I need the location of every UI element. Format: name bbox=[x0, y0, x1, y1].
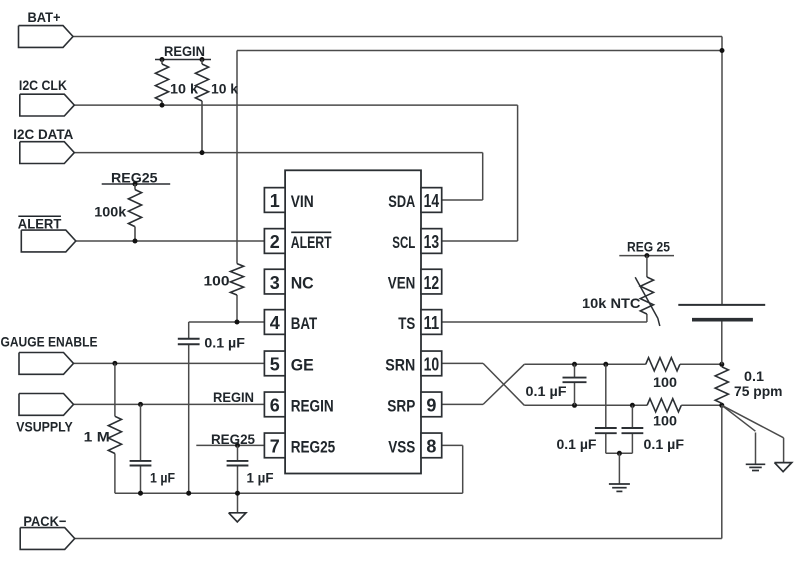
svg-text:10k NTC: 10k NTC bbox=[582, 295, 641, 311]
resistor 10k pull-up (SDA) bbox=[195, 60, 208, 153]
resistor 0.1 shunt 75ppm bbox=[715, 367, 728, 404]
svg-text:VIN: VIN bbox=[291, 192, 314, 211]
wire signal ground stem bbox=[755, 433, 757, 465]
wire SRP pin 9 stub bbox=[442, 403, 483, 405]
svg-text:0.1 µF: 0.1 µF bbox=[644, 436, 685, 452]
svg-text:4: 4 bbox=[270, 313, 280, 333]
svg-text:GAUGE ENABLE: GAUGE ENABLE bbox=[1, 334, 98, 350]
svg-text:2: 2 bbox=[270, 232, 280, 252]
ground chassis (shunt) bbox=[774, 463, 791, 472]
svg-text:8: 8 bbox=[426, 437, 436, 457]
svg-text:14: 14 bbox=[424, 191, 440, 211]
svg-text:BAT+: BAT+ bbox=[28, 9, 61, 25]
resistor 100k pull-up (ALERT) bbox=[128, 184, 141, 241]
svg-text:5: 5 bbox=[270, 355, 280, 375]
label 10k NTC bbox=[582, 295, 641, 311]
wire PACK- horizontal bbox=[75, 538, 722, 540]
pin 1 box/number bbox=[264, 188, 285, 213]
label BAT+ bbox=[28, 9, 61, 25]
svg-text:I2C DATA: I2C DATA bbox=[13, 126, 73, 142]
thermistor 10k NTC bbox=[635, 277, 660, 326]
wire 0.1uF BAT cap lower lead bbox=[188, 344, 190, 493]
pin 13 box/number bbox=[421, 229, 442, 254]
junction shunt bottom (PACK-) bbox=[719, 403, 724, 408]
wire SDA into pin 14 bbox=[442, 199, 483, 201]
pin 14 box/number bbox=[421, 188, 442, 213]
label 10 k (left) bbox=[170, 81, 198, 97]
junction 10k/SDA bbox=[200, 150, 205, 155]
wire 0.1uF right upper lead bbox=[631, 405, 633, 428]
connector GAUGE ENABLE bbox=[19, 353, 74, 375]
svg-text:I2C CLK: I2C CLK bbox=[19, 77, 67, 93]
label VSUPPLY bbox=[16, 419, 73, 435]
svg-text:100k: 100k bbox=[94, 203, 126, 219]
wire BAT+ tap to 100-ohm filter bbox=[237, 50, 722, 52]
svg-text:7: 7 bbox=[270, 437, 280, 457]
connector PACK- bbox=[20, 528, 74, 550]
svg-text:100: 100 bbox=[653, 374, 677, 390]
wire 1uF (REG25) upper lead bbox=[237, 445, 239, 461]
svg-text:SRP: SRP bbox=[387, 396, 415, 415]
junction REGIN rail right bbox=[200, 57, 205, 62]
svg-text:3: 3 bbox=[270, 273, 280, 293]
junction upper row / 0.1uF left bbox=[603, 362, 608, 367]
junction REGIN rail left bbox=[160, 57, 165, 62]
label 100k bbox=[94, 203, 126, 219]
pin 8 box/number bbox=[421, 433, 442, 458]
ground signal (sense caps) bbox=[609, 484, 630, 491]
pin 11 label TS bbox=[398, 314, 415, 333]
svg-text:11: 11 bbox=[424, 313, 440, 333]
wire VSS pin 8 stub bbox=[442, 444, 462, 446]
svg-text:1 µF: 1 µF bbox=[150, 470, 175, 486]
junction BAT pin node bbox=[235, 320, 240, 325]
wire 0.1uF BAT cap upper lead bbox=[188, 322, 190, 339]
svg-text:REG 25: REG 25 bbox=[627, 238, 670, 254]
svg-text:REG25: REG25 bbox=[211, 431, 255, 447]
wire SRP sense lower row bbox=[524, 404, 647, 406]
junction lower row / 0.1uF right bbox=[630, 403, 635, 408]
wire NTC lower lead bbox=[646, 314, 648, 322]
label ALERT-bar bbox=[18, 216, 62, 232]
wire ALERT to pin 2 bbox=[76, 240, 265, 242]
junction GE / 1M tap bbox=[112, 361, 117, 366]
wire crossover SRP to upper bbox=[483, 364, 524, 404]
label 1 M bbox=[84, 429, 110, 445]
wire I2C DATA drop to SDA bbox=[482, 153, 484, 200]
wire shunt to signal ground diagonal bbox=[722, 405, 756, 431]
pin 12 label VEN bbox=[388, 274, 416, 293]
wire VSUPPLY to pin 6 (REGIN) bbox=[74, 403, 265, 405]
svg-text:VEN: VEN bbox=[388, 274, 416, 293]
wire 100-ohm filter vertical (upper) bbox=[236, 51, 238, 264]
wire SRP row to shunt bbox=[681, 404, 722, 406]
wire cap ground stem bbox=[618, 453, 620, 484]
pin 9 box/number bbox=[421, 392, 442, 417]
svg-text:1 µF: 1 µF bbox=[247, 470, 274, 486]
svg-text:10: 10 bbox=[424, 355, 440, 375]
junction REG25 rail / NTC bbox=[644, 253, 649, 258]
battery cell positive plate bbox=[678, 304, 765, 306]
wire shunt to chassis ground diagonal bbox=[722, 405, 784, 438]
label GAUGE ENABLE bbox=[1, 334, 98, 350]
junction cap ground tie bbox=[617, 451, 622, 456]
node REGIN rail (pull-ups) bbox=[155, 59, 211, 61]
node REG25 rail (100k) bbox=[102, 183, 171, 185]
label I2C CLK bbox=[19, 77, 67, 93]
junction REGIN / 1uF tap bbox=[138, 402, 143, 407]
connector I2C DATA bbox=[20, 142, 75, 164]
svg-text:100: 100 bbox=[204, 272, 230, 288]
svg-text:10 k: 10 k bbox=[170, 81, 198, 97]
svg-text:REGIN: REGIN bbox=[291, 396, 334, 415]
svg-text:REGIN: REGIN bbox=[213, 389, 254, 405]
wire SRN pin 10 stub bbox=[442, 362, 483, 364]
svg-text:0.1: 0.1 bbox=[744, 368, 764, 384]
junction REG25 rail / 100k bbox=[133, 182, 138, 187]
label REGIN net at pin 6 bbox=[213, 389, 254, 405]
capacitor 0.1uF (SRP-gnd) bbox=[622, 428, 644, 433]
pin 4 label BAT bbox=[291, 314, 318, 333]
wire BAT+ drop to battery positive bbox=[721, 37, 723, 305]
capacitor 1uF (REG25) bbox=[227, 461, 249, 466]
svg-text:REGIN: REGIN bbox=[164, 43, 205, 59]
svg-text:ALERT: ALERT bbox=[18, 216, 62, 232]
pin 2 label ALERT bbox=[291, 232, 332, 252]
wire BAT+ rail (top) bbox=[73, 36, 722, 38]
junction BAT+ tap bbox=[720, 48, 725, 53]
label 100 (SRP) bbox=[653, 412, 677, 428]
pin 10 label SRN bbox=[385, 355, 415, 374]
op-amp U1 body (fuel gauge IC) bbox=[285, 170, 421, 473]
svg-text:75 ppm: 75 ppm bbox=[734, 383, 783, 399]
label REG25 rail bottom bbox=[211, 431, 255, 447]
wire 0.1uF left lower lead bbox=[605, 433, 607, 453]
wire 0.1uF series lower lead bbox=[574, 382, 576, 405]
resistor 100 (BAT filter) bbox=[230, 264, 243, 295]
wire GAUGE ENABLE to pin 5 bbox=[74, 362, 265, 364]
wire 1uF (REGIN) upper lead bbox=[140, 404, 142, 461]
wire SRN row to shunt bbox=[680, 363, 722, 365]
wire SRN sense upper row bbox=[524, 363, 645, 365]
junction REG25 rail / 1uF bbox=[235, 443, 240, 448]
svg-text:ALERT: ALERT bbox=[291, 233, 332, 252]
svg-text:GE: GE bbox=[291, 355, 314, 374]
svg-text:VSUPPLY: VSUPPLY bbox=[16, 419, 73, 435]
wire 1uF (REGIN) lower lead bbox=[140, 465, 142, 493]
svg-text:6: 6 bbox=[270, 396, 280, 416]
pin 1 label VIN bbox=[291, 192, 314, 211]
label 0.1uF (series) bbox=[526, 383, 567, 399]
wire battery minus to shunt bbox=[721, 320, 723, 364]
battery cell negative plate bbox=[692, 318, 753, 322]
wire 1uF (REG25) lower lead bbox=[237, 465, 239, 512]
wire I2C CLK drop to SCL bbox=[517, 105, 519, 241]
node REG25 rail (thermistor) bbox=[619, 255, 674, 257]
wire SCL into pin 13 bbox=[442, 240, 517, 242]
label 100 (BAT filter) bbox=[204, 272, 230, 288]
svg-text:0.1 µF: 0.1 µF bbox=[526, 383, 567, 399]
connector ALERT-bar bbox=[21, 230, 76, 252]
resistor 1M (VSUPPLY) bbox=[108, 416, 121, 453]
svg-text:100: 100 bbox=[653, 412, 677, 428]
pin 8 label VSS bbox=[388, 437, 415, 456]
label 1uF (REGIN) bbox=[150, 470, 175, 486]
connector VSUPPLY bbox=[19, 394, 74, 416]
junction 100k/ALERT bbox=[133, 239, 138, 244]
label 0.1 (shunt) bbox=[744, 368, 764, 384]
pin 11 box/number bbox=[421, 310, 442, 335]
wire 100-ohm lower lead bbox=[236, 295, 238, 322]
wire VSS drop to ground bus bbox=[462, 445, 464, 493]
junction ground bus / 1uF REG25 bbox=[235, 491, 240, 496]
label 0.1uF (SRP-gnd) bbox=[644, 436, 685, 452]
svg-text:SRN: SRN bbox=[385, 355, 415, 374]
resistor 10k pull-up (SCL) bbox=[155, 60, 168, 106]
wire crossover SRN to lower bbox=[483, 363, 524, 405]
junction 10k/SCL bbox=[160, 103, 165, 108]
label 10 k (right) bbox=[211, 81, 238, 97]
wire ground bus bbox=[115, 492, 463, 494]
wire 1M upper lead bbox=[114, 363, 116, 416]
wire 0.1uF left upper lead bbox=[605, 364, 607, 428]
svg-text:13: 13 bbox=[424, 232, 440, 252]
label 0.1uF (BAT) bbox=[204, 335, 245, 351]
pin 3 label NC bbox=[291, 274, 314, 293]
label I2C DATA bbox=[13, 126, 73, 142]
connector BAT+ bbox=[19, 26, 74, 48]
capacitor 0.1uF (SRN-gnd) bbox=[595, 428, 617, 433]
resistor 100 (SRN) bbox=[646, 358, 680, 371]
junction ground bus / 0.1uF BAT bbox=[186, 491, 191, 496]
svg-text:VSS: VSS bbox=[388, 437, 415, 456]
ground chassis (REG25 cap) bbox=[229, 513, 246, 522]
pin 5 label GE bbox=[291, 355, 314, 374]
pin 12 box/number bbox=[421, 269, 442, 294]
wire chassis ground stem bbox=[783, 438, 785, 463]
label REG 25 rail right bbox=[627, 238, 670, 254]
label 1uF (REG25) bbox=[247, 470, 274, 486]
capacitor 0.1uF (BAT) bbox=[178, 339, 200, 345]
pin 10 box/number bbox=[421, 351, 442, 376]
pin 2 box/number bbox=[264, 229, 285, 254]
junction lower row / 0.1uF series bbox=[572, 403, 577, 408]
pin 5 box/number bbox=[264, 351, 285, 376]
junction shunt top (battery minus) bbox=[719, 362, 724, 367]
pin 7 label REG25 bbox=[291, 437, 336, 456]
wire I2C DATA horizontal bbox=[74, 152, 482, 154]
svg-text:0.1 µF: 0.1 µF bbox=[557, 436, 597, 452]
wire I2C CLK horizontal bbox=[74, 104, 517, 106]
svg-text:BAT: BAT bbox=[291, 314, 318, 333]
wire 0.1uF right lower lead bbox=[631, 433, 633, 453]
ground signal (shunt) bbox=[746, 464, 766, 470]
wire shunt to PACK- drop bbox=[721, 405, 723, 538]
label REG25 rail left bbox=[111, 169, 158, 185]
label 0.1uF (SRN-gnd) bbox=[557, 436, 597, 452]
svg-text:SDA: SDA bbox=[388, 192, 415, 211]
pin 3 box/number bbox=[264, 269, 285, 294]
pin 6 label REGIN bbox=[291, 396, 334, 415]
pin 14 label SDA bbox=[388, 192, 415, 211]
wire 0.1uF series upper lead bbox=[574, 364, 576, 377]
pin 7 box/number bbox=[264, 433, 285, 458]
svg-text:SCL: SCL bbox=[392, 233, 415, 252]
label 75 ppm bbox=[734, 383, 783, 399]
svg-text:1: 1 bbox=[270, 191, 280, 211]
pin 4 box/number bbox=[264, 310, 285, 335]
svg-text:1 M: 1 M bbox=[84, 429, 110, 445]
capacitor 0.1uF (SRN-SRP series) bbox=[563, 378, 587, 383]
svg-text:NC: NC bbox=[291, 274, 314, 293]
svg-text:0.1 µF: 0.1 µF bbox=[204, 335, 245, 351]
wire NTC upper lead bbox=[646, 256, 648, 277]
node REG25 rail (pin 7) bbox=[196, 444, 264, 446]
pin 13 label SCL bbox=[392, 233, 415, 252]
label 100 (SRN) bbox=[653, 374, 677, 390]
svg-text:10 k: 10 k bbox=[211, 81, 238, 97]
svg-text:PACK−: PACK− bbox=[23, 513, 66, 529]
wire 1M lower lead bbox=[114, 454, 116, 494]
resistor 100 (SRP) bbox=[647, 399, 681, 412]
junction ground bus / 1uF REGIN bbox=[138, 491, 143, 496]
junction upper row / 0.1uF series bbox=[572, 362, 577, 367]
wire cap ground tie bbox=[606, 452, 633, 454]
capacitor 1uF (REGIN) bbox=[130, 461, 152, 466]
label PACK- bbox=[23, 513, 66, 529]
svg-text:9: 9 bbox=[426, 396, 436, 416]
svg-text:12: 12 bbox=[424, 273, 440, 293]
pin 9 label SRP bbox=[387, 396, 415, 415]
wire BAT pin 4 horizontal bbox=[189, 321, 265, 323]
wire TS pin 11 to thermistor bbox=[442, 321, 647, 323]
svg-text:TS: TS bbox=[398, 314, 415, 333]
svg-text:REG25: REG25 bbox=[291, 437, 336, 456]
label REGIN rail bbox=[164, 43, 205, 59]
pin 6 box/number bbox=[264, 392, 285, 417]
connector I2C CLK bbox=[20, 94, 75, 116]
